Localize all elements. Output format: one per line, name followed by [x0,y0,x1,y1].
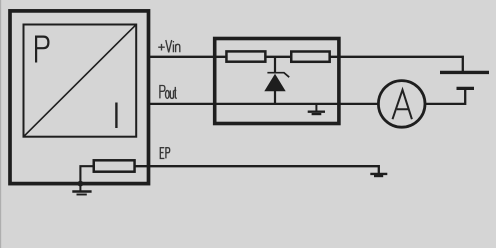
letter P (pressure) [36,37,48,63]
ground inside protection box [308,104,325,114]
ground at transmitter case [72,184,91,195]
protection network box [215,39,339,124]
ammeter letter A [393,90,412,119]
label Pout [160,86,177,99]
transmitter outer box [10,11,149,184]
junction dot on transmitter case [78,181,84,187]
wire diode anode/cathode verticals [274,57,276,104]
wire resistor R3 left lead down to transmitter case [80,166,95,183]
zener diode D1 triangle [264,74,285,92]
label +Vin [158,40,180,52]
battery positive plate [440,71,489,74]
label EP [160,148,169,159]
transmitter inner square [24,25,137,137]
ammeter A1 circle [378,81,425,128]
wire EP run from resistor to earth [134,166,379,173]
letter I (current) [115,103,117,129]
zener diode D1 cathode bar [267,73,289,78]
wire ammeter to battery negative [426,88,466,104]
resistor R2 [291,52,329,62]
resistor R3 (EP bleed resistor) [94,160,135,171]
battery negative plate [457,87,475,90]
ground at EP line end [370,174,387,176]
wire Pout run from transmitter to ammeter [150,103,378,105]
wire +Vin run from transmitter to battery positive [150,57,463,73]
transmitter diagonal divider [24,25,135,135]
resistor R1 [226,51,265,61]
screenshot left-edge artifact line [0,0,1,248]
